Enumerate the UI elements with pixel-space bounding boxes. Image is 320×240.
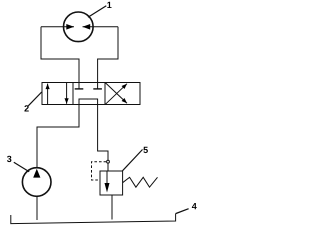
wire pump inlet to tank line — [36, 196, 38, 220]
valve centre position: blocked port T-bar A — [75, 88, 84, 90]
svg-text:4: 4 — [192, 201, 197, 211]
valve right position: crossed arrow up — [106, 84, 128, 105]
svg-text:3: 3 — [7, 154, 12, 164]
pilot tap node — [107, 160, 110, 163]
directional control valve V (item 2) body — [42, 83, 140, 105]
relief valve pilot line (dashed) — [92, 162, 107, 180]
svg-text:5: 5 — [143, 145, 148, 155]
valve left position: down arrow — [66, 83, 68, 104]
svg-text:1: 1 — [107, 0, 112, 10]
valve left position: up arrow — [47, 84, 49, 105]
wire valve T port to relief valve inlet — [98, 105, 108, 161]
wire node to relief valve top — [107, 163, 109, 171]
wire motor left port to valve port A — [41, 27, 79, 89]
hydraulic pump P (item 3) — [22, 168, 51, 197]
tank return line (item 4) — [11, 214, 176, 224]
wire valve P port to pump outlet — [37, 105, 79, 169]
relief valve spring — [123, 177, 158, 187]
svg-text:2: 2 — [24, 104, 29, 114]
valve right position: crossed arrow down — [106, 83, 128, 103]
leader line to label 5 — [122, 150, 142, 171]
wire motor right port to valve port B — [98, 27, 118, 89]
leader line to label 4 — [176, 209, 189, 214]
leader line to label 2 — [28, 92, 41, 106]
hydraulic motor M (item 1) — [41, 12, 118, 42]
leader line to label 1 — [88, 6, 106, 17]
leader line to label 3 — [14, 162, 29, 172]
valve centre position: blocked port T-bar B — [93, 88, 102, 90]
wire relief valve outlet to tank line — [111, 195, 113, 220]
relief valve RV (item 5) body — [100, 171, 123, 195]
valve centre position: P-T bypass loop — [79, 99, 98, 105]
